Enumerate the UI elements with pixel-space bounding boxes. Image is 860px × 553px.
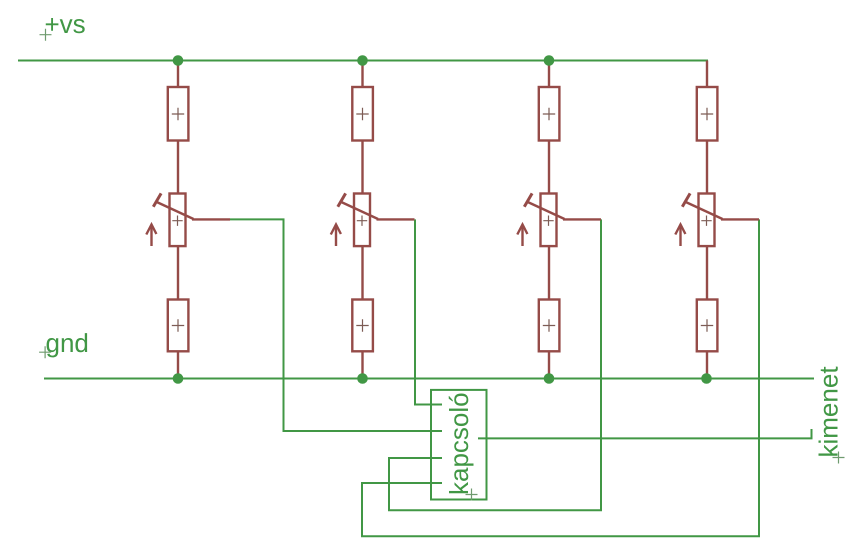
svg-text:kapcsoló: kapcsoló — [444, 392, 474, 495]
svg-text:gnd: gnd — [45, 328, 88, 358]
svg-text:kimenet: kimenet — [814, 366, 844, 458]
